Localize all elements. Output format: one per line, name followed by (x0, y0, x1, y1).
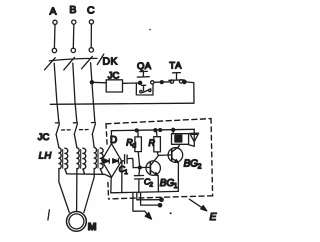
wire phase C bus to contact (94, 104, 95, 123)
wire QA to TA (154, 81, 171, 84)
svg-text:E: E (210, 211, 218, 223)
wire control return bus (50, 103, 194, 104)
svg-text:BG: BG (160, 178, 175, 189)
svg-text:1: 1 (174, 183, 178, 190)
junction dot after TA (183, 80, 186, 83)
switch DK blade pole B (64, 57, 75, 70)
wire phase B bus to contact (75, 104, 77, 123)
output lead 3 (141, 193, 162, 207)
CT1 secondary winding (65, 148, 68, 173)
CT1 primary winding (59, 148, 61, 169)
output lead 1 with arrow (133, 193, 152, 219)
svg-text:A: A (50, 5, 57, 17)
dashed enclosure E right (211, 119, 213, 196)
svg-text:TA: TA (169, 60, 182, 71)
svg-text:BG: BG (184, 159, 199, 170)
dashed enclosure E left (106, 124, 109, 199)
switch DK blade pole A (45, 58, 56, 70)
wire CT secondary bus (67, 174, 112, 178)
stray dot bottom (170, 212, 172, 214)
pushbutton QA (137, 71, 154, 84)
label E pointer arrow (189, 199, 207, 211)
svg-text:2: 2 (149, 181, 153, 188)
CT3 primary winding (94, 148, 96, 169)
CT1 core (62, 150, 64, 169)
svg-text:DK: DK (103, 56, 118, 68)
wire bottom rail (111, 191, 179, 192)
relay coil J (172, 130, 189, 145)
wire phase A drop to bus (54, 63, 57, 104)
wire phase B drop (73, 63, 75, 103)
rectifier bridge D diamond (102, 144, 122, 178)
capacitor C1 (122, 155, 134, 168)
switch DK linkage bar (49, 58, 97, 61)
wire phase A bus to contact (57, 104, 59, 123)
wire contact1 to CT1 (56, 135, 59, 148)
junction dot relay top (172, 128, 175, 131)
CT2 core (80, 150, 82, 169)
contact JC pole 2 (73, 123, 77, 135)
CT2 secondary winding (83, 148, 86, 173)
pushbutton TA (169, 73, 184, 84)
junction dot R top (154, 129, 157, 132)
dashed enclosure E top (106, 119, 211, 124)
svg-text:2: 2 (198, 163, 202, 170)
wire CT3 to motor (84, 169, 94, 213)
transistor BG1 (146, 156, 160, 192)
bridge diode 2 (113, 159, 119, 163)
junction dot after QA (160, 81, 163, 84)
contact JC pole 1 (55, 123, 59, 135)
transistor BG2 (168, 144, 183, 191)
svg-text:1: 1 (124, 169, 128, 176)
wire BG1 collector to BG2 base (158, 154, 171, 157)
motor M (67, 212, 87, 232)
wire phase C drop (91, 63, 94, 104)
wire JC coil to QA (123, 82, 139, 84)
dashed enclosure E bottom (109, 196, 213, 199)
junction dot Rd top (135, 129, 138, 132)
contact linkage dashes (62, 129, 91, 132)
wire bridge top to rail (110, 131, 112, 144)
wire bridge bottom to rail (110, 177, 112, 192)
node junction on phase C (90, 81, 93, 84)
switch DK blade pole C (82, 56, 93, 68)
wire base node to BG1 (133, 166, 150, 168)
terminal A (52, 20, 57, 53)
wire CT2 to motor (76, 169, 78, 212)
contact JC auxiliary (seal-in) loop (136, 83, 153, 95)
wire contact3 to CT3 (92, 134, 94, 147)
junction dot rail mid (159, 129, 162, 132)
freewheel diode (189, 129, 199, 146)
CT3 secondary winding (100, 148, 103, 173)
wire bridge right drop (121, 161, 123, 192)
mark 1 near motor (48, 210, 50, 220)
stray dot top (149, 29, 151, 31)
junction dot base node (138, 166, 141, 169)
switch DK handle slash (97, 54, 104, 65)
CT2 primary winding (77, 148, 79, 169)
svg-text:B: B (69, 4, 76, 16)
wire TA to right corner (186, 82, 194, 103)
contact JC pole 3 (91, 123, 95, 135)
resistor R (154, 130, 161, 155)
terminal C (89, 20, 93, 52)
svg-text:JC: JC (38, 132, 50, 143)
svg-text:LH: LH (39, 151, 52, 162)
wire CT1 to motor (59, 169, 69, 213)
wire C to JC coil (92, 81, 106, 84)
wire contact2 to CT2 (74, 135, 77, 148)
contactor coil JC box (106, 80, 122, 92)
CT3 core (97, 149, 99, 168)
svg-text:C: C (87, 5, 95, 17)
output lead 2 (137, 193, 163, 201)
wire top rail (111, 129, 194, 130)
terminal B (71, 20, 76, 53)
svg-text:QA: QA (137, 61, 152, 72)
resistor Rd (135, 131, 142, 168)
svg-text:M: M (88, 221, 97, 233)
capacitor C2 (134, 168, 143, 193)
bridge diode 1 (104, 159, 110, 163)
